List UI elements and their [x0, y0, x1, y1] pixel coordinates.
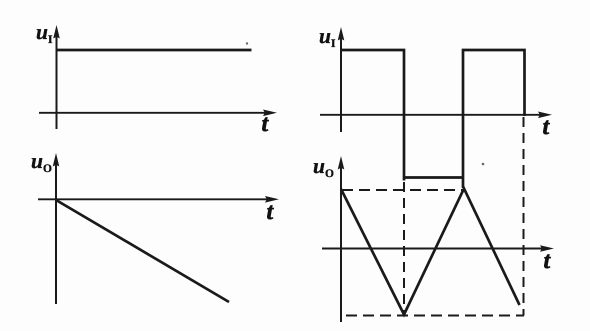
waveform: triangle wave (bottom-right)	[341, 189, 520, 315]
axis uI vertical (top-left)	[53, 25, 60, 129]
dashed vertical: first transition at trough	[403, 182, 405, 313]
axis t horizontal (top-right)	[320, 112, 552, 119]
waveform: descending ramp (bottom-left)	[56, 200, 229, 302]
axis uO vertical (bottom-right)	[338, 156, 345, 322]
axis t horizontal (bottom-right)	[322, 245, 554, 252]
axis t horizontal (top-left)	[39, 110, 277, 117]
dashed level line: top peak level	[342, 189, 463, 191]
speck dot	[246, 42, 248, 44]
dashed vertical: second falling edge extended	[523, 117, 525, 316]
waveform: step high line (top-left)	[57, 49, 252, 52]
waveform: square wave (top-right)	[341, 50, 525, 188]
speck dot	[482, 163, 485, 166]
dashed level line: bottom trough level	[346, 315, 524, 317]
axis t horizontal (bottom-left)	[38, 196, 279, 203]
axis uI vertical (top-right)	[338, 27, 345, 132]
axis uO vertical (bottom-left)	[53, 153, 60, 304]
